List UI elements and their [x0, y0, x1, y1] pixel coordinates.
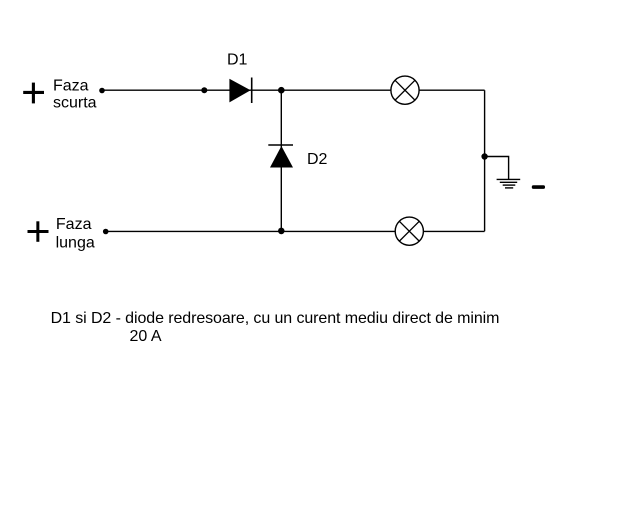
diode D2 [268, 145, 293, 168]
wire top rail [102, 89, 485, 91]
plus terminal (Faza lunga) [28, 221, 49, 242]
diode D1 [229, 78, 251, 104]
wire D2 branch vertical [280, 90, 282, 231]
wire right vertical rail [484, 90, 486, 231]
minus terminal [532, 185, 545, 189]
node B junction bottom (D2/bottom rail) [278, 228, 285, 235]
svg-text:D2: D2 [307, 151, 328, 168]
node dot at top-left wire end [99, 88, 105, 94]
svg-text:Faza: Faza [56, 216, 92, 233]
svg-text:lunga: lunga [56, 234, 95, 251]
svg-text:D1: D1 [227, 51, 248, 68]
lamp L1 (circle with cross) [391, 76, 419, 104]
node dot at bottom-left wire end [103, 229, 109, 235]
svg-text:Faza: Faza [53, 78, 89, 95]
label Faza scurta [53, 78, 97, 112]
ground symbol [497, 179, 521, 188]
svg-text:20 A: 20 A [130, 328, 162, 345]
wire bottom rail [106, 230, 485, 232]
svg-text:D1 si D2 - diode redresoare, c: D1 si D2 - diode redresoare, cu un curen… [51, 310, 500, 327]
svg-text:scurta: scurta [53, 95, 97, 112]
node dot mid top wire [201, 87, 207, 93]
plus terminal (Faza scurta) [23, 83, 44, 104]
lamp L2 (circle with cross) [395, 217, 423, 245]
caption text [51, 310, 500, 345]
label Faza lunga [56, 216, 95, 252]
node dot ground tap [481, 153, 487, 159]
wire ground stem [485, 157, 509, 180]
node A junction top (D1/D2) [278, 87, 285, 94]
